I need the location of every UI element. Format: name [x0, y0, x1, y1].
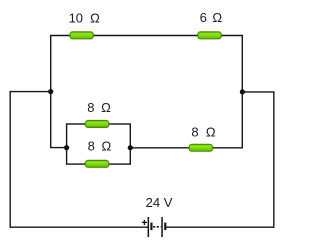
svg-text:8: 8 — [88, 138, 95, 153]
wire bottom right of battery — [166, 226, 274, 228]
svg-text:24 V: 24 V — [146, 195, 173, 210]
wire right vertical branch — [241, 35, 243, 148]
wire left vertical branch — [50, 35, 52, 148]
battery dashed continuation — [153, 226, 161, 228]
svg-text:8: 8 — [87, 100, 94, 115]
resistor R5 8 ohm right branch — [189, 144, 212, 151]
wire node A to outer left — [10, 91, 51, 93]
battery V1 negative plate (left cell short thick) — [150, 223, 152, 231]
resistor R2 6 ohm body — [198, 32, 221, 39]
battery V1 positive terminal plate (left cell long) — [148, 217, 150, 237]
node D junction dot (right of parallel pair) — [128, 145, 133, 150]
svg-text:Ω: Ω — [101, 100, 111, 115]
node A junction dot — [48, 89, 53, 94]
wire mid-left horizontal to parallel pair — [50, 147, 67, 149]
svg-text:Ω: Ω — [101, 138, 111, 153]
svg-text:10: 10 — [69, 10, 83, 25]
parallel pair loop rectangle — [67, 124, 131, 164]
wire top (node left top corner to right top corner) — [51, 35, 243, 37]
svg-text:6: 6 — [200, 10, 207, 25]
svg-text:Ω: Ω — [90, 10, 100, 25]
wire outer left vertical — [9, 91, 11, 227]
battery V1 second cell long plate — [161, 217, 163, 237]
node C junction dot (left of parallel pair) — [64, 145, 69, 150]
svg-text:Ω: Ω — [206, 124, 216, 139]
resistor R3 8 ohm top of parallel pair — [86, 121, 109, 128]
wire mid-right horizontal through R5 — [130, 147, 243, 149]
resistor R1 10 ohm body — [70, 32, 93, 39]
wire outer right vertical — [273, 92, 275, 228]
node B junction dot — [240, 89, 245, 94]
battery plus polarity mark — [142, 221, 147, 223]
resistor R4 8 ohm bottom of parallel pair — [86, 160, 109, 167]
svg-text:8: 8 — [191, 124, 198, 139]
wire node B to outer right — [242, 91, 274, 93]
svg-text:Ω: Ω — [212, 10, 222, 25]
wire bottom left of battery — [10, 226, 149, 228]
battery V1 second cell short thick plate — [164, 223, 166, 231]
